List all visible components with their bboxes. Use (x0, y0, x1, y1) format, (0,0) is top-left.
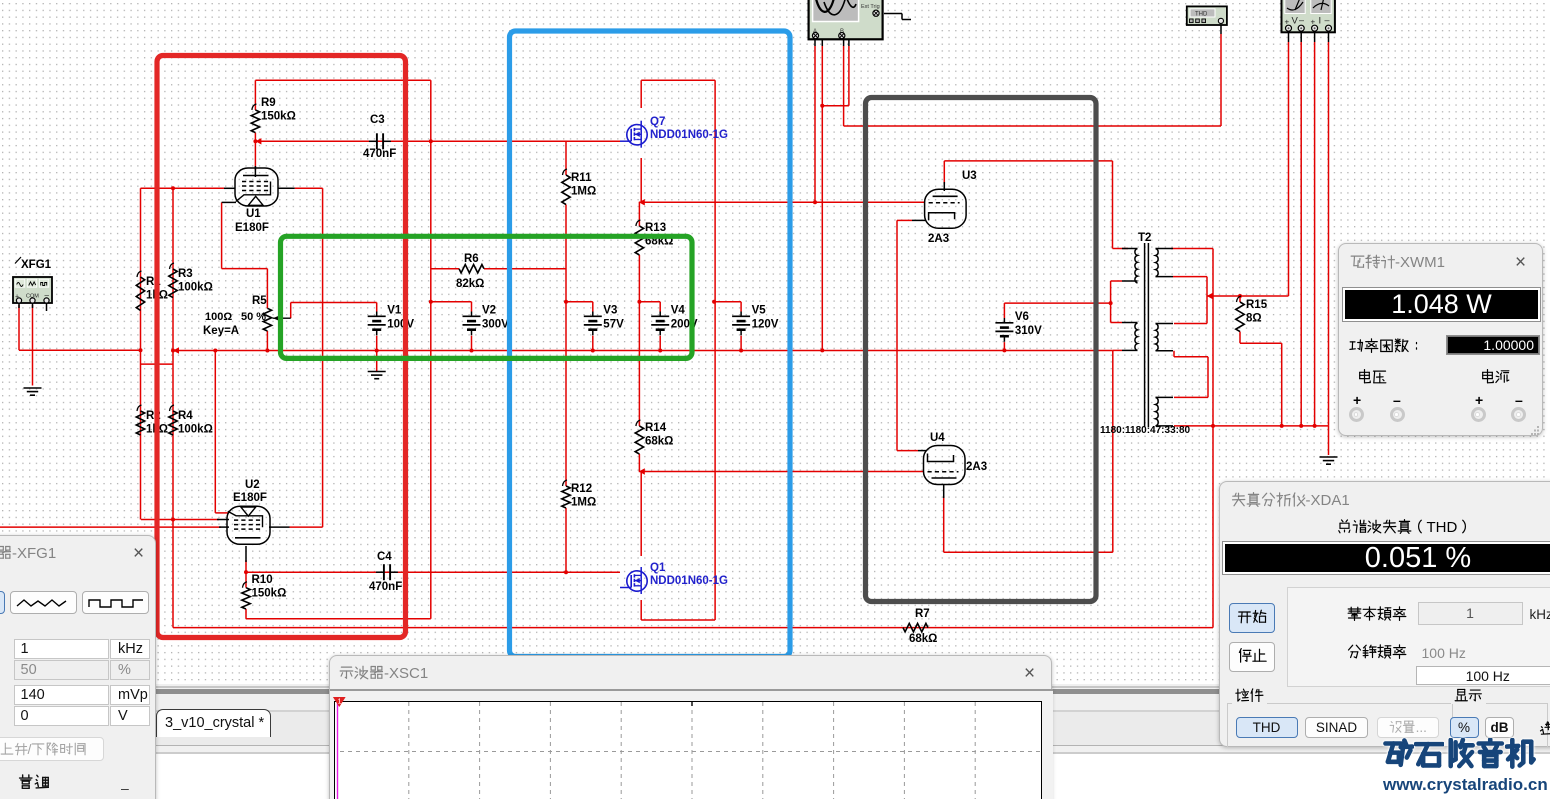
svg-text:100V: 100V (387, 318, 414, 330)
svg-text:–: – (1325, 15, 1330, 25)
svg-text:68kΩ: 68kΩ (909, 633, 937, 645)
svg-text:57V: 57V (603, 318, 624, 330)
svg-text:R13: R13 (645, 222, 666, 234)
svg-text:150kΩ: 150kΩ (252, 588, 287, 600)
svg-text:50 %: 50 % (241, 311, 266, 323)
svg-text:1180:1180:47:33:80: 1180:1180:47:33:80 (1100, 425, 1191, 436)
svg-text:2A3: 2A3 (928, 233, 949, 245)
svg-text:470nF: 470nF (369, 581, 402, 593)
svg-text:C4: C4 (377, 551, 392, 563)
svg-text:1MΩ: 1MΩ (571, 186, 596, 198)
svg-text:V5: V5 (752, 304, 767, 316)
svg-text:82kΩ: 82kΩ (456, 278, 484, 290)
svg-text:100kΩ: 100kΩ (178, 282, 213, 294)
svg-text:2A3: 2A3 (966, 461, 987, 473)
svg-text:E180F: E180F (233, 492, 267, 504)
svg-text:100Ω: 100Ω (205, 311, 232, 323)
svg-text:R15: R15 (1246, 299, 1268, 311)
svg-text:U2: U2 (245, 479, 260, 491)
svg-text:Q7: Q7 (650, 116, 665, 128)
svg-text:V6: V6 (1015, 311, 1029, 323)
svg-text:R4: R4 (178, 410, 193, 422)
svg-text:U1: U1 (246, 208, 261, 220)
svg-text:100kΩ: 100kΩ (178, 424, 213, 436)
svg-text:R10: R10 (252, 574, 273, 586)
svg-text:R5: R5 (252, 295, 267, 307)
svg-text:C3: C3 (370, 114, 385, 126)
svg-text:R3: R3 (178, 268, 193, 280)
svg-text:R7: R7 (915, 608, 930, 620)
svg-text:E180F: E180F (235, 222, 269, 234)
svg-text:NDD01N60-1G: NDD01N60-1G (650, 129, 728, 141)
svg-text:300V: 300V (482, 318, 509, 330)
svg-text:THD: THD (1195, 12, 1208, 18)
svg-text:V4: V4 (671, 304, 686, 316)
svg-text:NDD01N60-1G: NDD01N60-1G (650, 575, 728, 587)
svg-text:T2: T2 (1138, 232, 1151, 244)
svg-text:V1: V1 (387, 304, 402, 316)
svg-text:U4: U4 (930, 432, 945, 444)
svg-text:V3: V3 (603, 304, 617, 316)
svg-text:U3: U3 (962, 170, 977, 182)
svg-text:1MΩ: 1MΩ (571, 497, 596, 509)
svg-text:Q1: Q1 (650, 562, 666, 574)
svg-text:I: I (1319, 16, 1322, 27)
svg-text:150kΩ: 150kΩ (261, 111, 296, 123)
svg-text:310V: 310V (1015, 325, 1042, 337)
svg-text:R14: R14 (645, 422, 667, 434)
svg-text:V: V (1292, 16, 1299, 27)
svg-text:8Ω: 8Ω (1246, 313, 1262, 325)
svg-text:R6: R6 (464, 253, 479, 265)
svg-text:120V: 120V (752, 318, 779, 330)
svg-text:Ext Trig: Ext Trig (861, 4, 880, 10)
svg-text:R12: R12 (571, 483, 592, 495)
svg-text:–: – (1299, 15, 1304, 25)
svg-text:470nF: 470nF (363, 148, 396, 160)
svg-text:R11: R11 (571, 172, 592, 184)
svg-text:1: 1 (337, 696, 341, 705)
svg-text:R9: R9 (261, 97, 276, 109)
svg-text:68kΩ: 68kΩ (645, 436, 673, 448)
svg-text:V2: V2 (482, 304, 496, 316)
svg-text:XFG1: XFG1 (21, 259, 52, 271)
svg-text:Key=A: Key=A (203, 325, 239, 337)
